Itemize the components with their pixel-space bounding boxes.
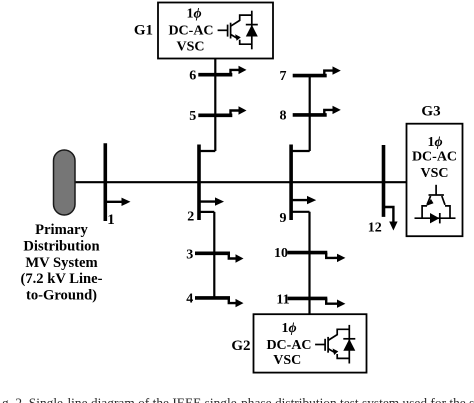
svg-text:DC-AC: DC-AC: [412, 150, 457, 165]
svg-text:VSC: VSC: [420, 166, 448, 181]
svg-text:VSC: VSC: [273, 353, 301, 368]
svg-text:(7.2 kV Line-: (7.2 kV Line-: [20, 271, 102, 287]
svg-text:DC-AC: DC-AC: [168, 24, 213, 39]
svg-text:3: 3: [186, 247, 193, 262]
svg-text:Distribution: Distribution: [23, 239, 99, 255]
svg-text:1: 1: [107, 212, 115, 228]
svg-text:5: 5: [189, 109, 196, 124]
svg-text:7: 7: [280, 69, 287, 84]
svg-text:10: 10: [274, 246, 288, 261]
svg-text:2: 2: [187, 210, 194, 225]
svg-text:G1: G1: [134, 23, 153, 39]
svg-text:12: 12: [368, 220, 382, 235]
svg-text:g. 2. Single-line diagram of: g. 2. Single-line diagram of the IEEE si…: [2, 395, 474, 403]
svg-text:1ϕ: 1ϕ: [186, 7, 201, 22]
svg-text:G3: G3: [421, 104, 440, 120]
svg-text:6: 6: [189, 68, 196, 83]
svg-text:4: 4: [186, 292, 193, 307]
svg-text:8: 8: [280, 108, 287, 123]
svg-text:1ϕ: 1ϕ: [427, 135, 442, 150]
svg-text:Primary: Primary: [35, 222, 88, 238]
svg-text:MV System: MV System: [25, 255, 97, 271]
svg-text:to-Ground): to-Ground): [26, 287, 97, 303]
svg-text:9: 9: [280, 211, 287, 226]
svg-text:G2: G2: [231, 338, 250, 354]
svg-text:DC-AC: DC-AC: [266, 338, 311, 353]
svg-text:11: 11: [276, 293, 289, 308]
svg-text:VSC: VSC: [176, 40, 204, 55]
svg-text:1ϕ: 1ϕ: [281, 321, 296, 336]
